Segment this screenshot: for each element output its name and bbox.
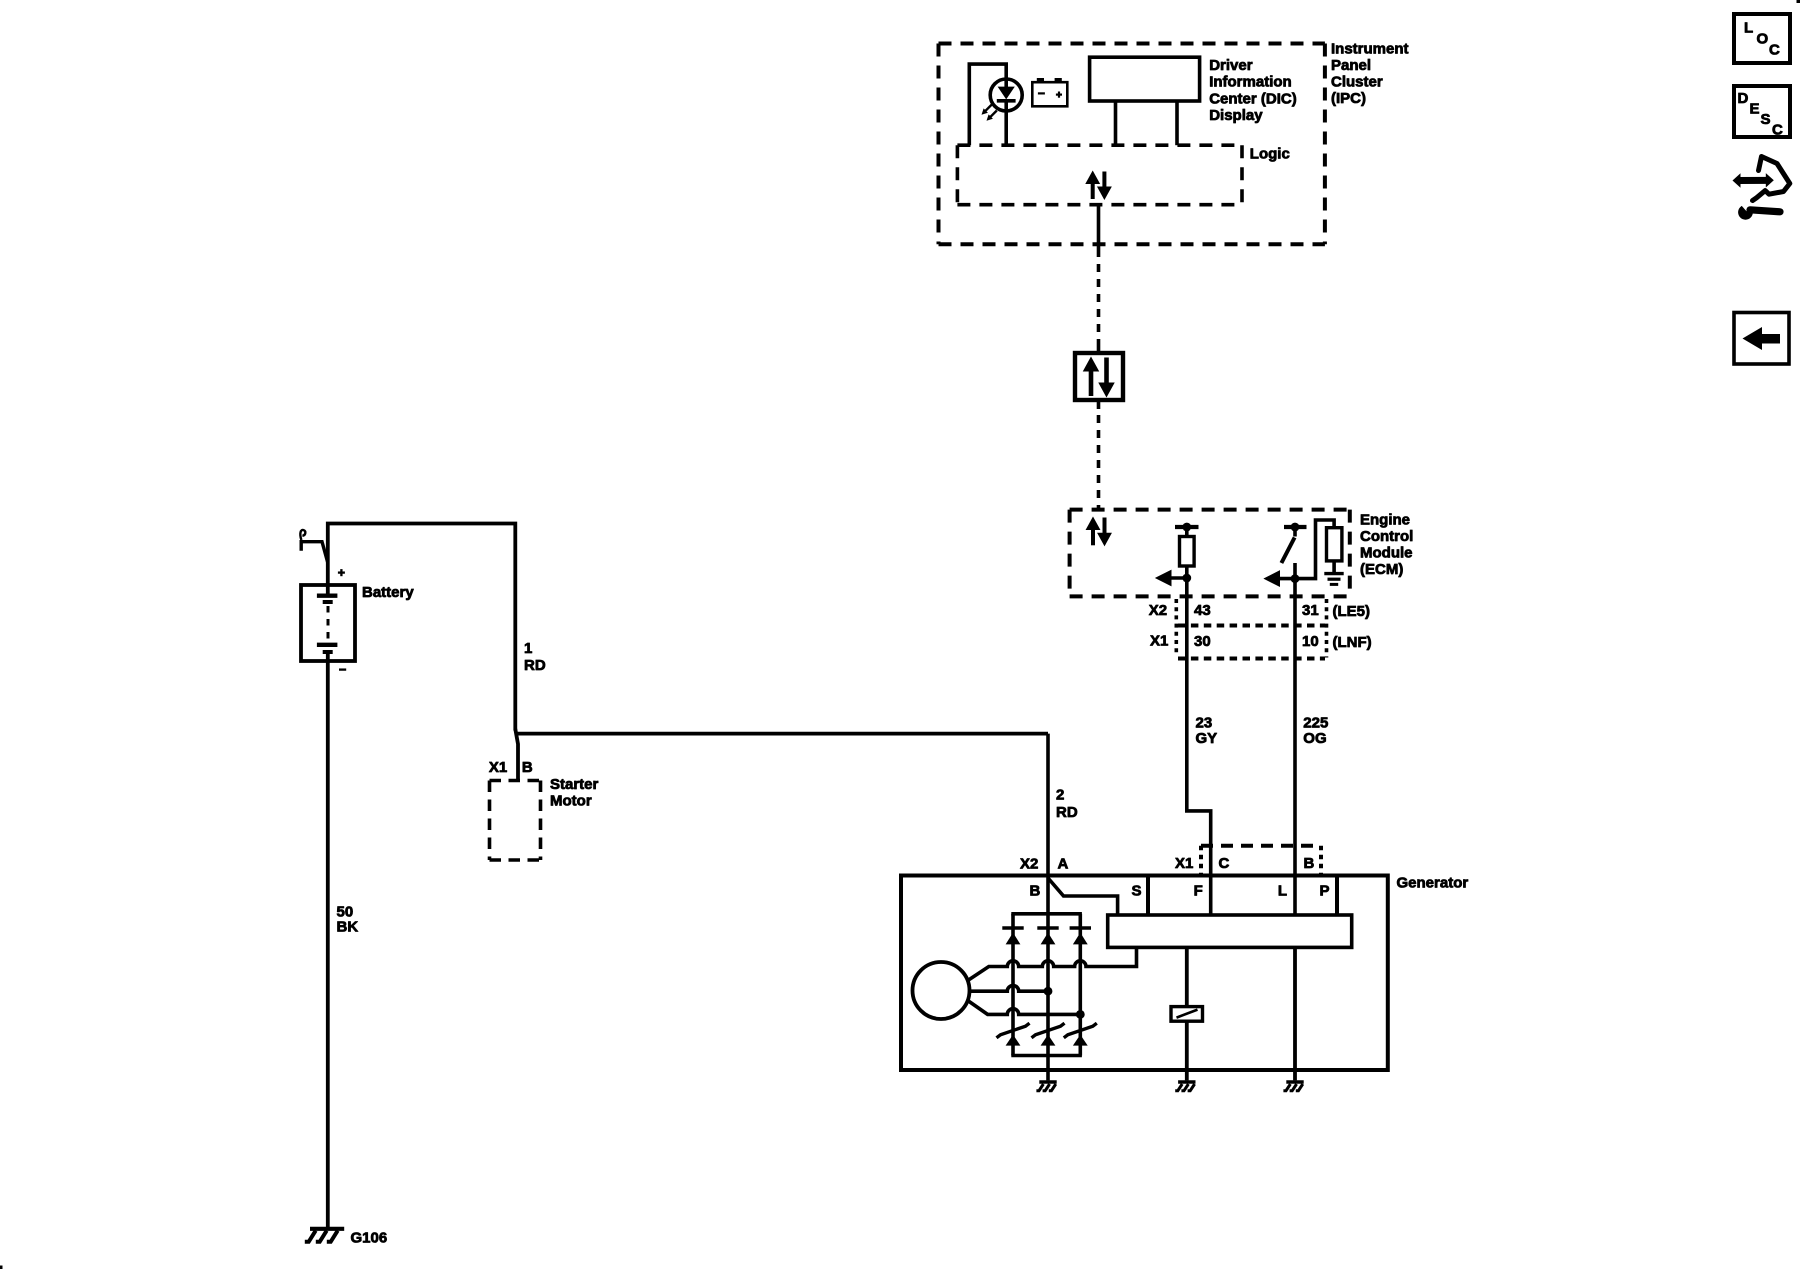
svg-text:GY: GY	[1196, 730, 1218, 747]
zener diode D5	[1032, 1023, 1065, 1045]
wire DIC leg left	[1114, 101, 1118, 145]
label plus	[338, 569, 345, 576]
svg-text:Center (DIC): Center (DIC)	[1209, 90, 1297, 107]
logic box	[957, 145, 1242, 205]
junction dot pin 43	[1182, 574, 1191, 583]
chassis ground G106	[305, 1229, 344, 1242]
switch generator output	[1048, 878, 1118, 915]
junction dot pin 31	[1291, 574, 1300, 583]
svg-text:X2: X2	[1149, 602, 1167, 619]
svg-text:23: 23	[1196, 715, 1213, 732]
wire junction to pull-up resistor	[1295, 520, 1334, 579]
diode D1	[1002, 928, 1023, 944]
svg-text:G106: G106	[351, 1230, 388, 1247]
svg-text:(IPC): (IPC)	[1331, 90, 1366, 107]
svg-text:X1: X1	[1150, 633, 1168, 650]
engine control module ECM box	[1070, 510, 1350, 597]
serial data gateway box	[1075, 353, 1123, 400]
wire generator A phase	[1046, 734, 1050, 1081]
fusible link curl	[300, 530, 327, 562]
svg-text:Battery: Battery	[362, 584, 414, 601]
stator winding middle	[970, 986, 1048, 992]
resistor ECM pull-up	[1327, 528, 1342, 561]
svg-text:(ECM): (ECM)	[1360, 561, 1403, 578]
icon diagnostic arrows and wrench	[1733, 157, 1790, 220]
wire battery positive feed	[328, 524, 516, 731]
page artifact dot	[0, 1266, 3, 1270]
svg-text:B: B	[1030, 883, 1041, 900]
starter motor box	[490, 781, 541, 861]
wire resistor to ground	[1332, 561, 1336, 572]
rotor circle	[913, 962, 970, 1019]
svg-text:10: 10	[1302, 633, 1319, 650]
wire LED branch	[969, 64, 1006, 145]
svg-text:2: 2	[1056, 787, 1064, 804]
svg-text:C: C	[1769, 42, 1780, 59]
page artifact corner mark	[1797, 0, 1800, 3]
field sense element	[1171, 1007, 1203, 1022]
wire 225 OG circuit	[1293, 596, 1297, 875]
icon DESC button	[1734, 86, 1790, 139]
generator connector labels	[1175, 855, 1315, 872]
chassis ground generator L	[1283, 1082, 1303, 1091]
battery telltale icon	[1032, 78, 1067, 106]
svg-text:O: O	[1757, 31, 1769, 48]
svg-text:P: P	[1319, 883, 1329, 900]
stator winding top	[967, 947, 1137, 981]
svg-text:A: A	[1058, 855, 1069, 872]
icon back button	[1734, 313, 1789, 365]
svg-text:B: B	[522, 759, 533, 776]
svg-text:Control: Control	[1360, 528, 1413, 545]
svg-text:Information: Information	[1209, 74, 1292, 91]
label 23 GY	[1196, 715, 1218, 748]
svg-text:L: L	[1278, 883, 1287, 900]
svg-text:31: 31	[1302, 602, 1319, 619]
pin letters S F L P	[1131, 883, 1329, 900]
wire switch to junction	[1293, 563, 1297, 596]
svg-text:E: E	[1750, 101, 1760, 118]
wire F to sense element	[1185, 947, 1189, 1006]
chassis ground generator F	[1175, 1082, 1195, 1091]
diode D3	[1070, 928, 1091, 944]
svg-text:Module: Module	[1360, 545, 1413, 562]
wire LED to logic	[1004, 101, 1008, 145]
label 225 OG	[1303, 715, 1328, 748]
icon LOC button	[1734, 14, 1790, 63]
generator box	[901, 876, 1388, 1071]
svg-text:43: 43	[1194, 602, 1211, 619]
chassis ground generator A	[1036, 1082, 1056, 1091]
svg-text:225: 225	[1303, 715, 1328, 732]
svg-text:S: S	[1131, 883, 1141, 900]
ECM serial data arrows	[1086, 518, 1111, 546]
svg-text:Starter: Starter	[550, 776, 599, 793]
signal arrow pin 43	[1156, 570, 1187, 585]
ECM pin 43 terminal bar	[1175, 525, 1199, 529]
pin box walls S F L P	[1148, 876, 1337, 916]
svg-text:B: B	[1304, 855, 1315, 872]
svg-text:S: S	[1761, 111, 1771, 128]
wire sense element to ground	[1185, 1021, 1189, 1080]
svg-text:L: L	[1744, 20, 1753, 37]
wire logic to IPC edge (solid)	[1097, 205, 1101, 257]
wire 50 BK battery negative	[326, 652, 330, 1229]
svg-text:OG: OG	[1303, 730, 1326, 747]
svg-text:RD: RD	[524, 657, 546, 674]
resistor ECM field sense	[1185, 527, 1189, 537]
starter motor labels X1 B	[489, 759, 533, 776]
svg-text:RD: RD	[1056, 804, 1078, 821]
zener diode D4	[997, 1023, 1030, 1045]
logic serial data arrows	[1086, 172, 1111, 200]
svg-text:(LNF): (LNF)	[1333, 634, 1372, 651]
svg-text:Generator: Generator	[1397, 875, 1469, 892]
svg-text:Cluster: Cluster	[1331, 74, 1383, 91]
wire 23 GY circuit	[1187, 596, 1211, 875]
wire L to ground	[1293, 947, 1297, 1080]
wire C pin to regulator	[1209, 876, 1213, 916]
instrument panel cluster IPC box	[939, 44, 1325, 245]
svg-text:BK: BK	[337, 919, 359, 936]
label minus	[339, 668, 346, 670]
diode D2	[1037, 928, 1058, 944]
connector labels row X2	[1149, 602, 1370, 620]
svg-text:1: 1	[524, 640, 532, 657]
svg-text:X1: X1	[489, 759, 507, 776]
svg-text:Display: Display	[1209, 107, 1263, 124]
wire resistor to junction	[1185, 566, 1189, 596]
signal arrow pin 31	[1265, 571, 1296, 586]
svg-text:Engine: Engine	[1360, 512, 1410, 529]
svg-text:D: D	[1738, 90, 1749, 107]
voltage regulator	[1108, 915, 1352, 947]
svg-text:C: C	[1219, 855, 1230, 872]
stator winding bottom	[967, 1000, 1080, 1014]
wire 2 RD horizontal	[517, 732, 1049, 736]
svg-text:(LE5): (LE5)	[1333, 603, 1371, 620]
top bus bar	[1011, 912, 1082, 916]
svg-text:F: F	[1194, 883, 1203, 900]
charge indicator LED	[982, 79, 1023, 121]
ECM pin 31 terminal bar	[1284, 525, 1307, 529]
svg-text:C: C	[1772, 122, 1783, 139]
wire serial data below box	[1097, 400, 1101, 409]
ECM label	[1360, 512, 1413, 579]
phase line 1	[1011, 914, 1015, 1056]
generator connector X1 dashed	[1201, 846, 1321, 875]
wire B pin through L P wall	[1293, 876, 1297, 916]
bottom bus bar	[1011, 1054, 1082, 1058]
wire 1 RD to starter	[515, 729, 518, 780]
svg-text:Panel: Panel	[1331, 57, 1371, 74]
connector X2 A labels	[1020, 855, 1069, 872]
svg-text:Instrument: Instrument	[1331, 41, 1409, 58]
DIC display	[1090, 57, 1200, 101]
switch ECM lamp driver	[1293, 527, 1297, 537]
IPC label	[1331, 41, 1409, 107]
connector labels row X1	[1150, 633, 1372, 652]
earth ground ECM	[1324, 574, 1343, 585]
label 1 RD	[524, 640, 546, 674]
label 2 RD	[1056, 787, 1078, 822]
label 50 BK	[337, 903, 359, 935]
svg-text:Motor: Motor	[550, 793, 592, 810]
battery	[301, 585, 355, 661]
wire DIC leg right	[1175, 101, 1179, 145]
phase line 3	[1079, 914, 1083, 1056]
svg-text:X2: X2	[1020, 855, 1038, 872]
svg-text:30: 30	[1194, 633, 1211, 650]
zener diode D6	[1064, 1023, 1097, 1045]
wire serial data (dashed)	[1097, 264, 1101, 345]
connector X2 X1 rows	[1176, 599, 1326, 659]
svg-text:Logic: Logic	[1250, 145, 1290, 162]
Starter Motor label	[550, 776, 599, 810]
svg-text:X1: X1	[1175, 855, 1193, 872]
DIC display label	[1209, 57, 1297, 124]
svg-text:Driver: Driver	[1209, 57, 1253, 74]
